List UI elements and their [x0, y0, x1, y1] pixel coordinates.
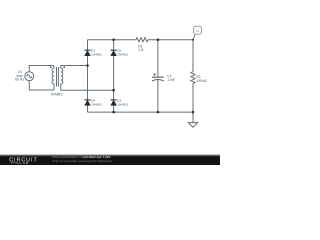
wire top rail right segment: [148, 40, 193, 71]
watermark credit text: [52, 155, 112, 163]
wire right bridge vertical: [113, 40, 115, 112]
node dot secondary top / bridge A: [86, 64, 89, 67]
wire bottom rail: [88, 111, 194, 113]
wire secondary top to bridge node A: [61, 65, 88, 67]
svg-text:1N4001: 1N4001: [91, 52, 102, 56]
svg-text:1 mF: 1 mF: [167, 78, 175, 82]
label D3 1N4001: [117, 99, 128, 107]
svg-text:1N4001: 1N4001: [117, 102, 128, 106]
label D1 1N4001: [91, 49, 102, 57]
node dot D2 top rail: [112, 38, 115, 41]
node dot C1 top rail: [157, 38, 160, 41]
diode D1: [85, 50, 91, 56]
label V1 sine 60 Hz: [15, 70, 24, 82]
svg-text:60 Hz: 60 Hz: [15, 78, 24, 82]
node dot ground junction: [192, 111, 195, 114]
node dot C1 bottom rail: [157, 111, 160, 114]
transformer core lines: [57, 67, 59, 87]
label D2 1N4001: [117, 49, 128, 57]
svg-text:1 Ω: 1 Ω: [138, 48, 144, 52]
voltage source V1: [25, 72, 34, 81]
node dot flag anchor: [192, 39, 194, 41]
svg-text:XFMR1: XFMR1: [51, 92, 62, 96]
watermark bar: [0, 154, 220, 165]
label D4 1N4001: [91, 99, 102, 107]
wire C1 branch top: [157, 40, 159, 77]
wire left bridge vertical: [87, 40, 89, 112]
label R1 1 Ohm: [138, 44, 144, 52]
transformer XFMR1 primary coil: [52, 66, 54, 91]
label R2 100 kOhm: [196, 75, 207, 83]
resistor R1: [135, 38, 148, 42]
svg-text:Vo: Vo: [196, 29, 200, 33]
svg-text:1N4001: 1N4001: [91, 102, 102, 106]
node dot secondary bottom / bridge B: [112, 89, 115, 92]
wire C1 branch bottom: [157, 80, 159, 112]
node dot D3 bottom rail: [112, 111, 115, 114]
wire secondary bottom to bridge node B: [61, 89, 114, 91]
transformer phase dot secondary: [63, 66, 65, 68]
capacitor C1: [152, 73, 164, 81]
node flag Vo: [193, 26, 201, 39]
diode D3: [111, 100, 117, 106]
wire R2 bottom to rail: [192, 85, 194, 113]
svg-text:LAB: LAB: [21, 161, 29, 165]
wire source loop left/top/bottom: [29, 66, 54, 91]
label C1 1 mF: [167, 74, 175, 81]
svg-text:1N4001: 1N4001: [117, 52, 128, 56]
resistor R2: [191, 71, 195, 85]
CircuitLab logo: [9, 157, 38, 165]
diode D2: [111, 50, 117, 56]
svg-text:http://circuitlab.com/c/ge717q: http://circuitlab.com/c/ge717qdfqvkky: [53, 159, 113, 163]
ground: [188, 112, 197, 127]
svg-text:100 kΩ: 100 kΩ: [196, 79, 207, 83]
transformer XFMR1 secondary coil: [61, 66, 63, 91]
wire top rail left segment: [88, 39, 136, 41]
diode D4: [85, 100, 91, 106]
transformer phase dot primary: [50, 66, 52, 68]
